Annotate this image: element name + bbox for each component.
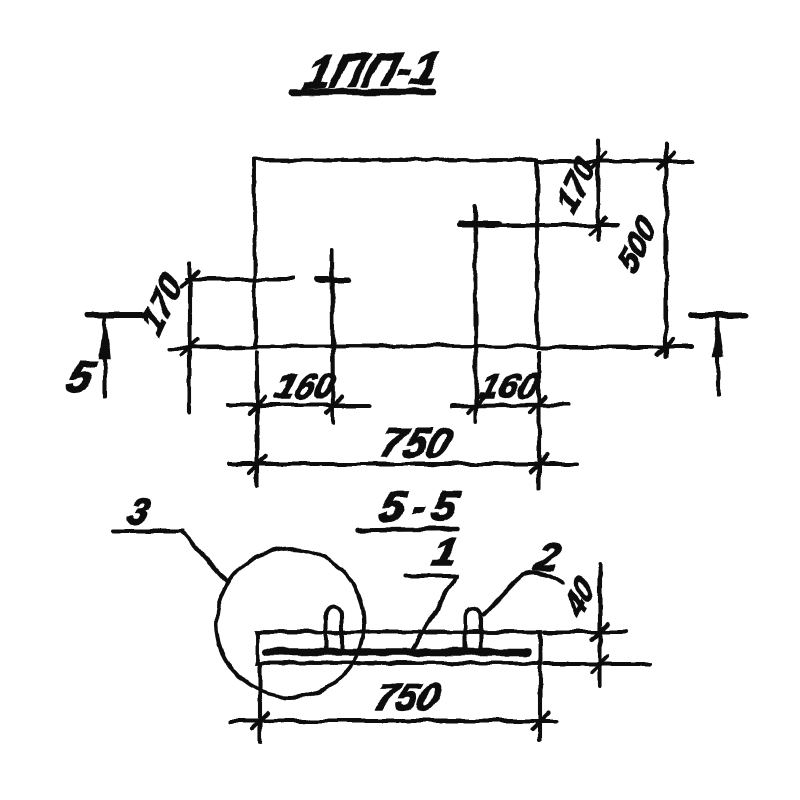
svg-text:5-5: 5-5 xyxy=(375,483,470,531)
svg-text:750: 750 xyxy=(370,677,446,719)
svg-text:160: 160 xyxy=(271,367,341,406)
svg-text:160: 160 xyxy=(475,367,545,406)
svg-text:750: 750 xyxy=(375,420,457,466)
